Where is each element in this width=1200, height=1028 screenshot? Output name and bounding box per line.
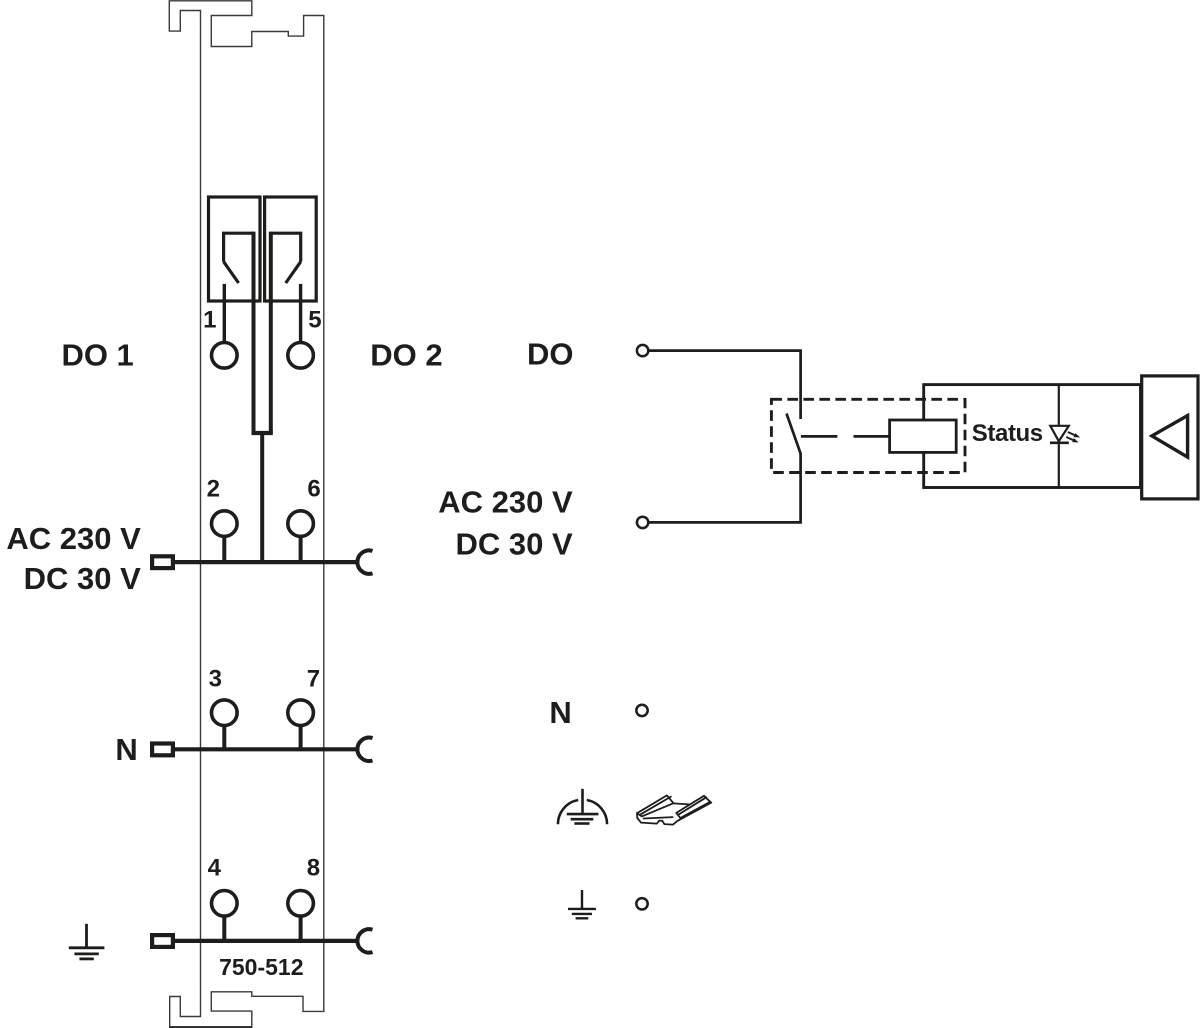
L bus right jumper arc bbox=[357, 550, 372, 573]
svg-text:AC 230 V: AC 230 V bbox=[6, 521, 141, 556]
clamp 1 spring blade bbox=[224, 262, 239, 283]
svg-text:1: 1 bbox=[203, 307, 216, 334]
svg-text:AC 230 V: AC 230 V bbox=[438, 484, 573, 519]
module outline bottom edge accent bbox=[169, 1026, 253, 1028]
svg-text:DO 2: DO 2 bbox=[370, 338, 442, 373]
wire from clamp 2 down (right rail of double line) bbox=[269, 232, 273, 433]
relay switch blade bbox=[787, 414, 801, 455]
junction cap bar joining double line bbox=[252, 431, 273, 435]
terminal circle pin 3 bbox=[212, 700, 238, 726]
N bus line bbox=[174, 747, 359, 751]
ground symbol at module PE row bbox=[69, 924, 105, 959]
clamp contact K2 outer box bbox=[265, 197, 317, 301]
relay dashed enclosure bbox=[771, 399, 965, 472]
N bus right jumper arc bbox=[357, 738, 372, 761]
wire from clamp 1 down (left rail of double line) bbox=[252, 232, 256, 433]
schematic DO terminal circle bbox=[637, 345, 648, 356]
LED light arrow 1 bbox=[1068, 432, 1080, 438]
pin 4 stub wire bbox=[222, 916, 226, 941]
svg-text:4: 4 bbox=[208, 854, 222, 881]
LED triangle bbox=[1050, 426, 1069, 441]
svg-text:3: 3 bbox=[209, 665, 222, 692]
svg-text:N: N bbox=[549, 695, 571, 730]
svg-text:6: 6 bbox=[307, 475, 320, 502]
svg-text:5: 5 bbox=[308, 307, 321, 334]
pin 1 wire bbox=[223, 284, 226, 342]
clamp 2 inner spring hook bbox=[271, 233, 301, 262]
schematic supply terminal circle bbox=[637, 517, 648, 528]
svg-text:DC 30 V: DC 30 V bbox=[456, 527, 573, 562]
PE bus line bbox=[174, 939, 359, 943]
svg-text:2: 2 bbox=[207, 475, 220, 502]
LED anode wire bbox=[1058, 385, 1060, 426]
module outline 750-512 bbox=[169, 1, 323, 1027]
fieldbus connector box bbox=[1142, 376, 1198, 499]
L bus line AC row bbox=[174, 560, 359, 564]
pin 8 stub wire bbox=[299, 916, 303, 941]
LED cathode wire bbox=[1058, 443, 1060, 488]
wire common feed down to L bus bbox=[260, 433, 264, 562]
relay actuator dash 1 bbox=[801, 435, 838, 438]
fieldbus triangle bbox=[1152, 416, 1188, 458]
svg-text:DO 1: DO 1 bbox=[61, 338, 133, 373]
LED status box bbox=[924, 385, 1141, 488]
pin 6 stub wire bbox=[299, 536, 303, 562]
svg-text:8: 8 bbox=[307, 854, 320, 881]
svg-text:DO: DO bbox=[527, 336, 574, 371]
pin 2 stub wire bbox=[222, 536, 226, 562]
svg-text:N: N bbox=[115, 732, 137, 767]
clamp 1 inner spring hook bbox=[224, 233, 254, 262]
pin 7 stub wire bbox=[299, 725, 303, 749]
pin 5 wire bbox=[299, 284, 302, 342]
N bus terminal square bbox=[152, 744, 173, 756]
terminal circle pin 1 bbox=[212, 343, 238, 369]
wire DO to switch top bbox=[649, 351, 801, 419]
LED light arrow 2 bbox=[1066, 437, 1078, 443]
PE bus terminal square bbox=[152, 935, 173, 947]
terminal circle pin 5 bbox=[288, 343, 314, 369]
terminal circle pin 2 bbox=[212, 511, 238, 537]
schematic N terminal circle bbox=[636, 705, 647, 716]
svg-text:750-512: 750-512 bbox=[219, 954, 303, 980]
terminal circle pin 8 bbox=[288, 891, 314, 917]
L bus terminal square bbox=[152, 556, 173, 568]
LED cathode bar bbox=[1050, 441, 1069, 444]
svg-text:DC 30 V: DC 30 V bbox=[24, 561, 141, 596]
DIN rail icon bbox=[637, 795, 711, 824]
svg-text:Status: Status bbox=[972, 420, 1043, 447]
svg-text:7: 7 bbox=[307, 665, 320, 692]
PE bus right jumper arc bbox=[357, 929, 372, 952]
terminal circle pin 4 bbox=[212, 891, 238, 917]
terminal circle pin 6 bbox=[288, 511, 314, 537]
terminal circle pin 7 bbox=[288, 700, 314, 726]
lower earth terminal circle bbox=[636, 898, 647, 909]
relay actuator dash 2 bbox=[854, 435, 890, 438]
relay coil K bbox=[890, 420, 957, 452]
pin 3 stub wire bbox=[222, 725, 226, 749]
clamp contact K1 outer box bbox=[209, 197, 261, 301]
wire supply to switch bottom bbox=[649, 454, 801, 523]
clamp 2 spring blade bbox=[286, 262, 301, 283]
earth symbol lower bbox=[568, 890, 596, 918]
earth electrode symbol with dome bbox=[558, 789, 607, 824]
